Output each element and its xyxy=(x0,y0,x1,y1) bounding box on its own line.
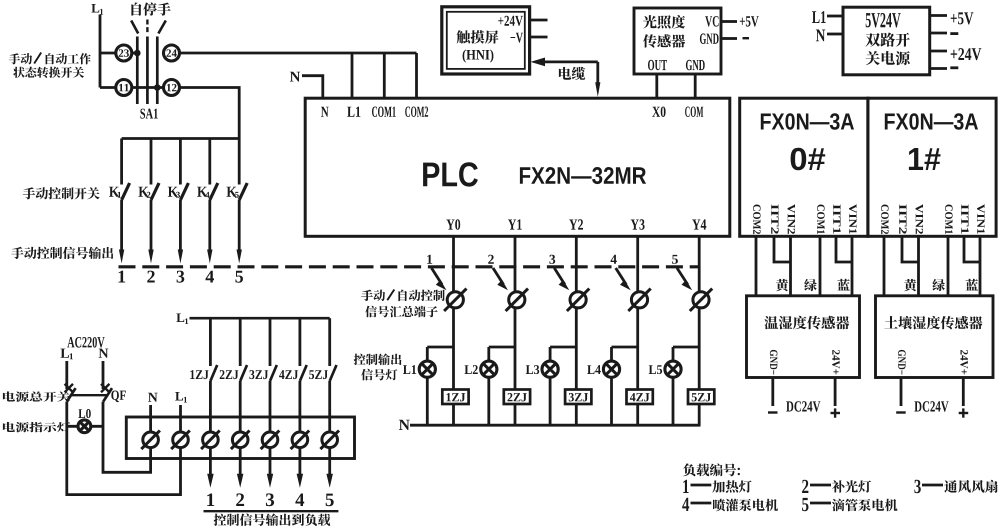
touch screen HMI box xyxy=(442,7,530,74)
signal number 3 with arrow xyxy=(549,255,569,290)
PLC pin COM2 xyxy=(405,107,428,118)
wire L1 pole to terminal L1 xyxy=(67,402,181,495)
analog module U2 FX0N-3A 0# xyxy=(740,98,868,236)
legend item 2 补光灯 xyxy=(802,480,871,493)
legend item 4 喷灌泵电机 xyxy=(682,498,778,512)
PLC pin Y1 xyxy=(508,219,522,229)
terminal N xyxy=(141,431,160,450)
terminal block box xyxy=(126,417,354,459)
annotation 手动/自动控制信号汇总端子 xyxy=(361,290,444,318)
signal lamp L2 xyxy=(465,347,516,425)
terminal N label and stub xyxy=(148,393,158,432)
wire 1# COM1 to sensor xyxy=(947,236,950,296)
relay coil 4ZJ xyxy=(627,390,653,405)
signal lamp L3 xyxy=(526,347,577,425)
switch K3 xyxy=(168,139,189,264)
power supply label xyxy=(866,13,910,65)
light sensor pin GND bottom xyxy=(686,60,705,71)
legend title 负载编号 xyxy=(683,463,740,476)
terminal 3 xyxy=(261,431,280,450)
summary terminal 4 xyxy=(628,289,650,311)
wire OUT to X0 xyxy=(655,74,658,98)
summary terminal 2 xyxy=(506,289,528,311)
PLC pin Y3 xyxy=(631,219,645,230)
annotation 电源指示灯 xyxy=(3,422,70,432)
PLC pin COM1 xyxy=(372,107,396,118)
wire 1# IIT1-VIN1 jumper to sensor xyxy=(964,236,980,296)
N bus (output common) xyxy=(399,420,701,430)
summary terminal 3 xyxy=(567,289,589,311)
signal lamp L5 xyxy=(649,347,700,425)
PLC title xyxy=(423,162,646,186)
terminal L1 xyxy=(171,431,190,450)
load output 1 arrow xyxy=(207,449,214,488)
PLC pin N xyxy=(321,107,329,117)
legend item 1 加热灯 xyxy=(683,480,751,493)
module 1# pin COM1 xyxy=(945,205,953,235)
summary terminal 1 xyxy=(444,289,466,311)
switch SA1 position label 自停手 xyxy=(131,2,170,15)
terminal 2 xyxy=(231,431,250,450)
terminal L1 label and stub xyxy=(175,392,187,432)
power supply input N xyxy=(816,30,843,42)
sensor 1 pin GND- xyxy=(770,350,778,375)
wire Y3 output column xyxy=(636,236,639,425)
load output 5 arrow xyxy=(326,449,333,488)
manual switch bus xyxy=(122,137,240,140)
load output 2 arrow xyxy=(237,449,244,488)
module 1# pin VIN2 xyxy=(916,204,924,234)
PLC pin X0 xyxy=(652,107,665,118)
PLC pin Y0 xyxy=(446,219,460,230)
load output numbers 1-5 xyxy=(207,493,334,506)
SA1 contact 23 xyxy=(116,45,132,61)
cable wire with arrows xyxy=(531,58,601,97)
terminal 1 xyxy=(201,431,220,450)
relay contact 5ZJ xyxy=(309,318,336,432)
annotation 手动控制信号输出 xyxy=(11,247,113,259)
module 0# pin VIN1 xyxy=(849,204,857,234)
light sensor pin GND xyxy=(700,33,749,44)
SA1 contact 12 xyxy=(164,80,180,96)
sensor 2 pin 24V+ xyxy=(960,350,968,374)
node AC220V xyxy=(67,337,104,348)
wire N pole to terminal N xyxy=(103,402,151,473)
switch K4 xyxy=(197,139,218,264)
module 0# pin COM2 xyxy=(753,205,761,235)
annotation 电源总开关 xyxy=(3,391,70,401)
summary terminal 5 xyxy=(690,289,712,311)
module 1# pin VIN1 xyxy=(977,204,985,234)
relay coil 5ZJ xyxy=(688,390,714,405)
module 0# pin VIN2 xyxy=(788,204,796,234)
wire 0# IIT2-VIN2 jumper to sensor xyxy=(774,236,791,296)
module 0# pin COM1 xyxy=(817,205,825,235)
relay contact 2ZJ xyxy=(220,318,247,432)
soil moisture sensor box 土壤湿度传感器 xyxy=(876,296,994,378)
sensor 1 DC24V supply xyxy=(768,378,840,418)
wire 0# IIT1-VIN1 jumper to sensor xyxy=(836,236,852,296)
node N (AC in) xyxy=(99,349,109,358)
load output 4 arrow xyxy=(297,449,304,488)
annotation 控制信号输出到负载 xyxy=(204,511,339,526)
wire 0# COM1 to sensor xyxy=(819,236,822,296)
touch screen pin +24V xyxy=(498,16,547,26)
power supply output -5V xyxy=(930,32,959,35)
signal number 2 with arrow xyxy=(488,255,508,290)
relay coil 1ZJ xyxy=(442,390,468,405)
node N (PLC supply) xyxy=(290,72,300,82)
wire L1 to SA1 contacts xyxy=(100,15,116,88)
touch screen pin -V xyxy=(511,33,548,43)
relay contact 1ZJ xyxy=(190,318,217,432)
node L1 (AC in) xyxy=(61,349,74,360)
signal lamp L4 xyxy=(587,347,638,425)
module 1# pin IIT2 xyxy=(899,205,906,234)
load output 3 arrow xyxy=(267,449,273,488)
switch SA1 designator xyxy=(140,109,157,119)
annotation 控制输出信号灯 xyxy=(354,354,402,381)
light sensor pin OUT xyxy=(648,60,667,71)
wire N to PLC xyxy=(302,76,323,98)
relay contact 3ZJ xyxy=(249,318,276,432)
touch screen label 触摸屏(HNI) xyxy=(457,30,499,62)
wire 1# COM2 to sensor xyxy=(883,236,886,296)
light sensor box 光照度传感器 xyxy=(634,8,721,74)
PLC pin Y2 xyxy=(569,219,583,229)
legend item 5 滴管泵电机 xyxy=(802,498,897,511)
SA1 contact 24 xyxy=(164,45,180,61)
legend item 3 通风风扇 xyxy=(914,480,997,493)
wire color labels 黄绿蓝 sensor 2 xyxy=(904,279,978,291)
wire Y1 output column xyxy=(514,236,517,425)
manual output node numbers 1-5 xyxy=(119,271,244,283)
module 0# pin IIT1 xyxy=(833,205,840,234)
terminal 5 xyxy=(320,431,339,450)
signal number 4 with arrow xyxy=(611,255,631,290)
breaker QF xyxy=(65,361,126,402)
power supply output +5V xyxy=(930,12,974,24)
switch K5 xyxy=(227,139,248,264)
dashed signal collection bus xyxy=(119,265,700,268)
temperature humidity sensor box 温湿度传感器 xyxy=(747,296,860,378)
module 1# pin COM2 xyxy=(881,205,889,235)
wire 1# IIT2-VIN2 jumper to sensor xyxy=(902,236,919,296)
wire contact 11 to contact 12 xyxy=(131,84,164,91)
annotation 手动/自动工作状态转换开关 xyxy=(9,53,91,78)
sensor 1 pin 24V+ xyxy=(832,350,840,374)
wire GND to COM xyxy=(694,74,697,98)
node L1 (top-left supply) xyxy=(91,4,103,15)
PLC pin L1 xyxy=(347,107,360,117)
module 0# pin IIT2 xyxy=(771,205,778,234)
power supply input L1 xyxy=(812,11,843,23)
wire contact 24 to PLC inputs L1 COM1 COM2 xyxy=(179,53,416,98)
relay coil 2ZJ xyxy=(504,390,530,405)
power supply box 5V24V xyxy=(843,7,930,75)
switch SA1 position ticks xyxy=(131,20,166,34)
switch SA1 bars xyxy=(137,37,157,105)
wire Y4 output column xyxy=(698,236,701,425)
node L1 (load bus) xyxy=(176,314,188,325)
PLC pin Y4 xyxy=(692,219,706,229)
wire 0# COM2 to sensor xyxy=(755,236,758,296)
cable label 电缆 xyxy=(559,67,585,80)
power supply output -24V xyxy=(930,66,959,69)
wire Y0 output column xyxy=(452,236,455,425)
sensor 2 DC24V supply xyxy=(896,378,968,418)
module 1# pin IIT1 xyxy=(961,205,968,234)
signal number 1 with arrow xyxy=(427,255,446,290)
light sensor label xyxy=(643,15,685,48)
switch K2 xyxy=(138,139,159,264)
power indicator lamp L0 xyxy=(67,409,103,433)
analog module U3 FX0N-3A 1# xyxy=(868,98,996,236)
terminal 4 xyxy=(291,431,310,450)
wire contact 12 to manual switch bus xyxy=(179,88,239,139)
load bus wire xyxy=(190,317,330,320)
light sensor pin VC xyxy=(705,16,759,27)
wire contact 23 to bar junction xyxy=(131,50,140,57)
PLC U1 FX2N-32MR xyxy=(305,98,730,236)
switch K1 xyxy=(109,139,130,264)
SA1 contact 11 xyxy=(116,80,132,96)
wire color labels 黄绿蓝 sensor 1 xyxy=(776,279,850,291)
PLC pin COM xyxy=(685,107,703,118)
power supply output +24V xyxy=(930,48,982,60)
relay coil 3ZJ xyxy=(565,390,591,405)
signal number 5 with arrow xyxy=(672,255,692,290)
annotation 手动控制开关 xyxy=(23,187,100,199)
sensor 2 pin GND- xyxy=(898,350,906,375)
wire Y2 output column xyxy=(575,236,578,425)
relay contact 4ZJ xyxy=(279,318,307,432)
signal lamp L1 xyxy=(403,347,454,425)
